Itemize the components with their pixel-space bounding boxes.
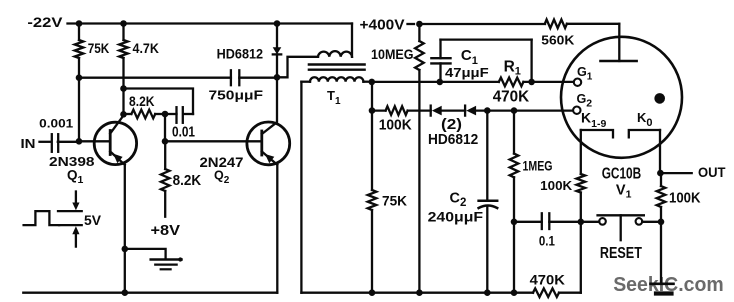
node C1 bottom (437, 79, 444, 86)
node IN/base (76, 138, 83, 145)
wire node to Q2 base (164, 114, 166, 141)
ground right (651, 282, 674, 285)
node rail 10MEG (416, 289, 423, 296)
node +400V/10MEG (416, 21, 423, 28)
wire 100K to diode (408, 109, 431, 111)
pulse bottom level (59, 224, 82, 226)
resistor 8.2K bias (164, 141, 166, 169)
node 75K rail (369, 289, 376, 296)
wire 10MEG down (418, 70, 420, 293)
svg-text:-22V: -22V (27, 15, 62, 30)
node 0.1 left (511, 219, 518, 226)
tube anode (601, 60, 637, 63)
wire 750uuF row right (239, 77, 277, 79)
electrode K0 (629, 130, 660, 137)
svg-text:OUT: OUT (698, 165, 726, 180)
svg-text:+400V: +400V (360, 17, 405, 34)
node diode row 1MEG (511, 107, 518, 114)
node 0.1 right (578, 219, 585, 226)
arrow up 5V (75, 234, 77, 247)
transistor Q2 envelope (247, 122, 290, 165)
svg-text:0.001: 0.001 (39, 116, 73, 130)
svg-text:+8V: +8V (151, 223, 181, 239)
svg-text:75K: 75K (88, 41, 110, 56)
wire 75K to IN node (78, 78, 80, 142)
node feedback top (120, 85, 127, 92)
svg-text:750μμF: 750μμF (209, 88, 264, 103)
wire K1-9 lead (580, 130, 582, 174)
wire bottom-right rail (301, 292, 533, 294)
svg-text:240μμF: 240μμF (428, 209, 484, 224)
node rail left (122, 289, 129, 296)
wire to ground right (660, 222, 662, 282)
svg-text:1MEG: 1MEG (523, 158, 553, 174)
pulse waveform (24, 211, 60, 225)
wire Q1 base (79, 140, 110, 142)
svg-text:HD6812: HD6812 (428, 131, 478, 148)
svg-text:5V: 5V (84, 213, 101, 228)
transistor Q1 base bar (109, 131, 112, 155)
tube V1 envelope (561, 37, 682, 158)
wire C2 top (486, 111, 488, 201)
node -22V/75K (76, 20, 83, 27)
wire rail to node (559, 292, 581, 294)
svg-text:100K: 100K (669, 189, 701, 206)
capacitor 0.001 (51, 134, 53, 152)
resistor 100K out (660, 173, 662, 186)
svg-text:RESET: RESET (600, 245, 642, 262)
wire cap to base node (58, 141, 79, 143)
transistor Q2 base bar (260, 131, 263, 155)
svg-text:8.2K: 8.2K (129, 94, 155, 109)
transformer T1 secondary (301, 81, 310, 83)
node -22V/diode (274, 20, 281, 27)
node T1 secondary right (369, 79, 376, 86)
wire OUT (660, 172, 691, 174)
terminal G2 (573, 107, 580, 114)
wire C1 R1 loop top (441, 38, 532, 40)
wire T1 secondary left down (300, 82, 302, 293)
svg-text:470K: 470K (493, 88, 530, 105)
svg-text:IN: IN (21, 136, 36, 151)
node -22V/4.7K (120, 20, 127, 27)
ground (151, 258, 182, 261)
node 100K row (369, 107, 376, 114)
svg-text:HD6812: HD6812 (217, 45, 264, 61)
node reset right (658, 219, 665, 226)
node 8.2K/0.01 (162, 111, 169, 118)
node diode/cap/T1 (274, 74, 281, 81)
node OUT tap (657, 170, 664, 177)
transistor Q1 collector (110, 115, 123, 133)
resistor 100K cathode (577, 174, 586, 193)
transistor Q1 envelope (94, 122, 136, 164)
svg-text:8.2K: 8.2K (173, 173, 202, 189)
svg-text:0.01: 0.01 (172, 124, 195, 140)
wire 750uuF row left (79, 77, 231, 79)
resistor 4.7K (122, 24, 124, 41)
pulse top level (58, 210, 82, 212)
svg-text:560K: 560K (541, 32, 574, 47)
node 75K bottom (76, 74, 83, 81)
node rail 1MEG (511, 289, 518, 296)
switch RESET bar (598, 214, 644, 216)
transistor Q2 collector (262, 77, 277, 134)
svg-text:4.7K: 4.7K (133, 41, 160, 56)
wire K0 lead (659, 130, 661, 173)
resistor 8.2K feedback (124, 113, 132, 115)
arrow down 5V (75, 192, 77, 204)
svg-text:100K: 100K (540, 179, 573, 193)
wire bottom-left rail (23, 292, 277, 294)
resistor 75K (78, 24, 80, 41)
capacitor 0.01 (175, 107, 177, 123)
wire C1 to R1 (440, 81, 499, 83)
switch RESET contact right (636, 218, 643, 225)
capacitor C2 240uuF (479, 199, 498, 202)
wire grid row left (372, 81, 440, 83)
wire node to switch (581, 221, 599, 223)
tube indicator dot (654, 93, 665, 104)
capacitor 0.1 (514, 221, 542, 223)
resistor 560K (545, 20, 567, 29)
wire ground tap (125, 249, 166, 259)
node Q1 collector (120, 111, 127, 118)
svg-text:47μμF: 47μμF (445, 66, 489, 80)
svg-text:470K: 470K (530, 271, 565, 287)
svg-text:10MEG: 10MEG (371, 46, 414, 62)
wire +400V rail (419, 23, 545, 25)
resistor 470K bottom (533, 288, 559, 297)
wire 75K column (371, 111, 373, 190)
diode HD6812 b (464, 106, 466, 116)
wire IN lead (40, 141, 50, 143)
wire node to rail (580, 222, 582, 293)
wire Q1 emitter down (124, 165, 126, 293)
terminal G1 (574, 79, 581, 86)
diode HD6812 a (430, 106, 432, 116)
transformer T1 core (309, 63, 365, 65)
capacitor 750uuF (230, 70, 232, 85)
wire -22V rail (68, 22, 353, 24)
wire switch to right node (642, 221, 661, 223)
resistor 75K right (368, 190, 377, 210)
wire R1 to G1 (523, 81, 573, 83)
svg-text:2N247: 2N247 (200, 154, 244, 170)
resistor 1MEG (513, 111, 515, 154)
node R1 right (528, 79, 535, 86)
wire Q2 emitter down (276, 165, 278, 293)
capacitor C1 47uuF (431, 57, 450, 59)
node emitter/ground (122, 246, 129, 253)
svg-text:GC10B: GC10B (602, 166, 642, 183)
switch RESET contact left (599, 218, 606, 225)
electrode K1-9 (581, 130, 613, 137)
svg-text:75K: 75K (382, 193, 407, 209)
wire 1MEG down (513, 177, 515, 292)
node Q2 base (162, 138, 169, 145)
node rail C2 (484, 289, 491, 296)
diode HD6812 (276, 24, 278, 48)
wire secondary right down (371, 82, 373, 111)
wire +400V lead dash (408, 23, 415, 25)
transformer T1 primary (277, 57, 318, 78)
wire anode drop (618, 24, 620, 61)
resistor 100K mid (372, 109, 386, 111)
resistor R1 470K (499, 78, 524, 87)
transistor Q1 emitter (110, 152, 125, 165)
wire feedback top (124, 89, 194, 115)
svg-text:0.1: 0.1 (539, 234, 555, 250)
svg-text:100K: 100K (379, 117, 412, 134)
node diode row C2 (484, 107, 491, 114)
resistor 10MEG (418, 24, 420, 41)
transistor Q2 emitter (262, 152, 278, 165)
